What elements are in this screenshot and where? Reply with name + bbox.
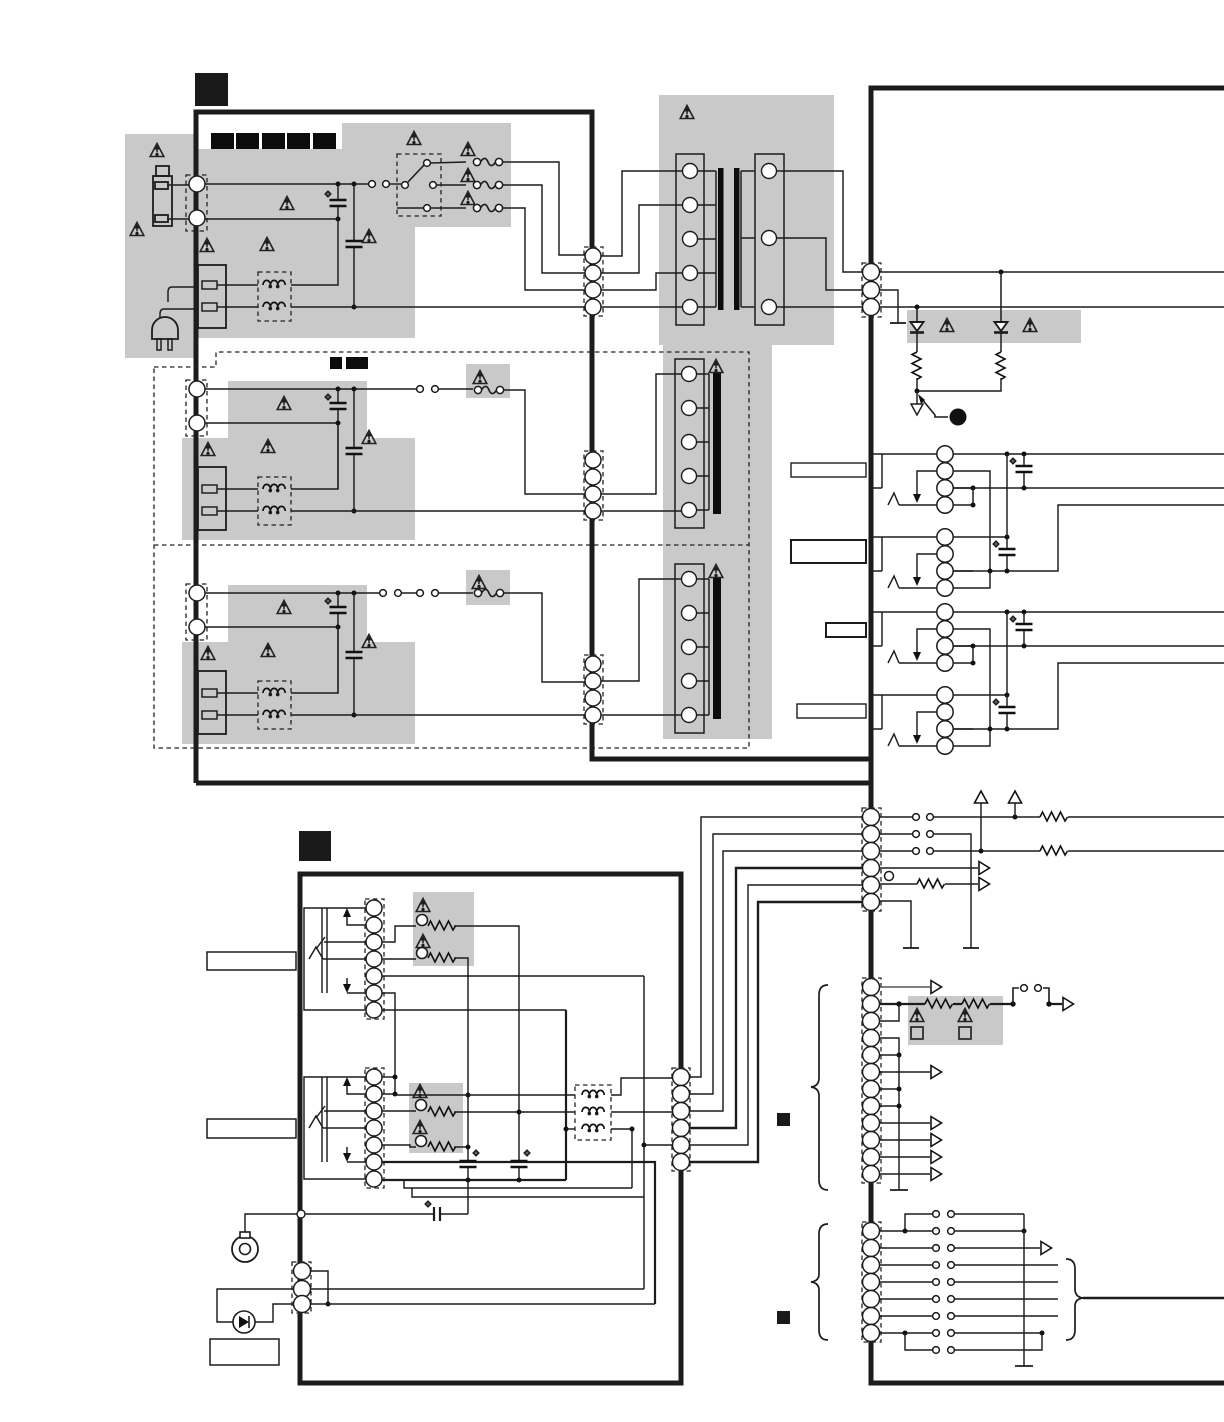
junction live cap2 s2 [352, 387, 357, 392]
wire cn12-12 to buffer [880, 1173, 930, 1175]
junction bottom C4 [352, 509, 357, 514]
junction b2l-2 [393, 1092, 398, 1097]
warning triangle fuse1 [461, 143, 475, 156]
terminal block section3 [198, 671, 226, 734]
wire rail B3 with elbow out [953, 505, 1224, 571]
junction rail top [999, 270, 1004, 275]
board pin sec2 [863, 282, 880, 299]
warning triangle lamp4 [413, 1121, 427, 1134]
dashed outline connector right mid [862, 808, 881, 911]
junction D1 [1005, 693, 1010, 698]
pin b2l-5 [366, 1137, 382, 1153]
contact open s2-a [417, 386, 424, 393]
jack body lines upper [322, 908, 327, 993]
junction live cap1 s2 [336, 387, 341, 392]
fuse F1-1 [473, 158, 502, 165]
T2 pin 5 [682, 503, 697, 518]
pin b2u-6 [366, 985, 382, 1001]
redacted label bar 3 [262, 133, 285, 149]
wire rail C3 [953, 645, 1224, 647]
resistor lamp3 [428, 1107, 456, 1116]
junction cnb1 right [1022, 1229, 1027, 1234]
junction live cap1 s3 [336, 591, 341, 596]
contact s7b [948, 1313, 955, 1320]
ground drop wire [1023, 1214, 1025, 1366]
long vertical feed [643, 976, 645, 1289]
junction cn12-5 [897, 1053, 902, 1058]
pin b2s-1 [294, 1263, 311, 1280]
warning triangle lamp2 [416, 935, 430, 948]
capacitor CA [1023, 454, 1025, 488]
junction A4 [971, 503, 976, 508]
pin b2l-2 [366, 1086, 382, 1102]
T3 pin 2 [682, 606, 697, 621]
junction C3b [1022, 644, 1027, 649]
dashed outline connector CN2 [186, 380, 207, 436]
wire b2l-5 to lamp4 [382, 1145, 416, 1147]
pin cn12-3 [863, 1013, 880, 1030]
wire rail C1 [953, 611, 1224, 613]
pin connector col1-3 [585, 282, 601, 298]
wire b2u-6 right [382, 993, 395, 1094]
dashed outline connector box2 lower [365, 1068, 384, 1188]
pin mid-2 [863, 826, 880, 843]
capacitor CF [511, 1161, 528, 1167]
wire lug2 to choke [217, 306, 258, 308]
pin open phono [297, 1210, 305, 1218]
resistor mid3 [1040, 846, 1068, 855]
brace output right [1066, 1259, 1083, 1340]
buffer cn12-12 [931, 1168, 942, 1181]
pin AC N section1 [189, 210, 205, 226]
wire center tap to ground [880, 290, 898, 323]
wire cn12-6 to buffer [880, 1071, 930, 1073]
junction bottom C2 [352, 305, 357, 310]
dashed outline connector col section1 [584, 247, 603, 316]
terminal lug s3-2 [202, 711, 217, 719]
contact open s2-b [432, 386, 439, 393]
shaded hazard area lamp resistors upper [413, 892, 474, 966]
pin mid-6 [863, 894, 880, 911]
wire col1-4 to T1 pin5 [601, 306, 682, 308]
pin b2r-2 [673, 1086, 690, 1103]
pin mid-1 [863, 809, 880, 826]
junction D3b [1005, 727, 1010, 732]
resistor lamp2 [428, 953, 456, 962]
warning triangle selector [407, 132, 421, 145]
dashed outline connector bottom 7pin [862, 1222, 881, 1342]
label box b2 lower [207, 1119, 296, 1138]
contact s9a [933, 1347, 940, 1354]
resistor mid5 [917, 879, 945, 888]
wire nested bottom b [412, 1188, 644, 1197]
pin AC L section2 [189, 381, 205, 397]
wire row s9 bottom [905, 1333, 1042, 1350]
pin b2l-7 [366, 1171, 382, 1187]
junction bottom C6 [352, 713, 357, 718]
wire mains bottom run [291, 306, 585, 308]
dashed outline line filter choke L2 [258, 477, 291, 525]
junction C3a [971, 644, 976, 649]
warning triangle RP2 [958, 1009, 972, 1022]
warning triangle block left [200, 239, 214, 252]
junction D3a [988, 727, 993, 732]
contact s1a [933, 1211, 940, 1218]
contact open a [369, 181, 376, 188]
wire cn12-9 to buffer [880, 1122, 930, 1124]
choke L3 winding top [263, 688, 285, 695]
shaded hazard area section 2 lower [182, 438, 415, 540]
wire row cnb6 [880, 1315, 1058, 1317]
buffer mid4 [979, 862, 990, 875]
warning triangle T2 [709, 360, 723, 373]
wire to LED indicator [217, 1289, 293, 1322]
dashed outline connector box2 left 3pin [292, 1262, 311, 1313]
junction cnb7 left [903, 1331, 908, 1336]
wire neutral section3 [205, 626, 338, 628]
wire feed to pin b2r-5 [644, 1144, 672, 1146]
wire T1 sec2 to board pin [777, 238, 862, 290]
selector common contact [402, 182, 409, 189]
polarity mark CF [524, 1150, 530, 1156]
T1 primary pin 1 [683, 164, 698, 179]
wire selector to fuse3 [431, 207, 466, 209]
wire rail B1 [953, 536, 1007, 538]
wire C3 to C4 link [953, 646, 973, 663]
speaker jack group B [872, 529, 973, 596]
wire rail D1 [953, 694, 1007, 696]
T1 secondary pin 3 [762, 300, 777, 315]
wire A2 to B4 [953, 471, 990, 588]
polarity mark CB [993, 541, 999, 547]
junction row1180 b [517, 1178, 522, 1183]
wire live section3 [205, 592, 473, 594]
AC plug prong left [157, 339, 161, 350]
ground mid6 [903, 947, 919, 949]
wire mid3 row [880, 850, 1224, 852]
dashed outline connector T1 secondary [862, 263, 881, 317]
junction cnb1 left [903, 1229, 908, 1234]
contact s6a [933, 1296, 940, 1303]
pin b2r-1 [673, 1069, 690, 1086]
terminal lug s3-1 [202, 689, 217, 697]
junction row1180 a [466, 1178, 471, 1183]
contact mid2 a [913, 831, 920, 838]
lamp NE2 [417, 948, 428, 959]
diode D1 [916, 307, 918, 352]
pin b2u-7 [366, 1002, 382, 1018]
wire row cnb7 [880, 1332, 1042, 1334]
pin col2-1 [585, 452, 601, 468]
wire row cnb2 to buffer [880, 1247, 1040, 1249]
wire mid2 row to ground [880, 834, 971, 948]
T1 secondary winding bar [741, 171, 755, 307]
resistor lamp4 [428, 1142, 456, 1151]
wire nested bottom a [404, 1180, 632, 1188]
T2 winding bar [697, 374, 709, 510]
T3 core [713, 577, 721, 719]
brace cn12 [811, 985, 828, 1190]
junction C4 [971, 661, 976, 666]
pin b2l-1 [366, 1069, 382, 1085]
speaker jack group A [872, 446, 973, 513]
T1 secondary pin 2 [762, 231, 777, 246]
T3 winding bar [697, 579, 709, 715]
dashed outline connector 12pin [862, 978, 881, 1183]
wire b2u-7 right [382, 1009, 566, 1011]
contact s5a [933, 1279, 940, 1286]
junction C1a [1005, 610, 1010, 615]
pin col2-4 [585, 503, 601, 519]
T2 pin 4 [682, 469, 697, 484]
transformer T2 frame [675, 359, 704, 528]
junction B3a [988, 569, 993, 574]
terminal lug s2-1 [202, 485, 217, 493]
wire plug cord 2 [160, 309, 198, 318]
series capacitor CG [434, 1207, 440, 1221]
junction A3b [1022, 486, 1027, 491]
T3 pin 3 [682, 640, 697, 655]
wire cn12-10 to buffer [880, 1139, 930, 1141]
capacitor C2 line to neutral [353, 184, 355, 307]
AC inlet connector body [153, 166, 172, 226]
redacted label bar 2 [236, 133, 259, 149]
choke L1 winding top [263, 280, 285, 287]
lamp NE3 [416, 1100, 427, 1111]
wire stair 1 to box2 pin1 [690, 817, 862, 1077]
bold output wire [1083, 1297, 1224, 1300]
junction cn12-8 [897, 1104, 902, 1109]
T2 pin 1 [682, 367, 697, 382]
buffer cn12-2 [1063, 998, 1074, 1011]
junction switch left [1010, 1001, 1015, 1006]
wire mid6 row to ground [880, 901, 911, 948]
wire b2u left rail [304, 908, 366, 1010]
junction cnb7 right [1040, 1331, 1045, 1336]
wire A1 to B1 link [1006, 454, 1008, 537]
ground cn12 [890, 1189, 908, 1191]
wire mains bottom run s2 [291, 510, 585, 512]
wire b2u-4 to lamp2 [382, 958, 416, 960]
contact open s3-a [380, 590, 387, 597]
junction bold choke row3 [564, 1127, 569, 1132]
junction b2l-1 [393, 1075, 398, 1080]
pin AC N section2 [189, 415, 205, 431]
wire b2s-2 long [311, 1288, 644, 1290]
warning triangle s2 left [201, 443, 215, 456]
dashed outline connector box2 right edge [672, 1068, 690, 1171]
fuse F3 [474, 589, 503, 596]
wire row cnb4 [880, 1281, 1058, 1283]
wire supply2 down [980, 803, 982, 851]
arrow up b2u-2 [347, 915, 366, 925]
junction mid1 [1013, 815, 1018, 820]
buffer cn12-9 [931, 1117, 942, 1130]
capacitor CB [1006, 537, 1008, 571]
dashed outline connector CN3 [186, 584, 207, 640]
bold vertical join [565, 1010, 567, 1180]
label square RP2 [959, 1027, 971, 1039]
wire cn12-2 signal bold [880, 1003, 1062, 1005]
amplifier block border (box 2) [300, 874, 681, 1383]
speaker jack group D [872, 687, 973, 754]
wire col1-3 to T1 pin4 [601, 273, 682, 290]
dashed outline connector col section3 [584, 655, 603, 724]
pin cn12-11 [863, 1149, 880, 1166]
shaded hazard area AC inlet strip [125, 134, 196, 358]
board pin sec1 [863, 264, 880, 281]
contact s4a [933, 1262, 940, 1269]
buffer cn12-11 [931, 1151, 942, 1164]
terminal block section2 [198, 467, 226, 530]
resistor R1 [912, 352, 921, 380]
shaded hazard area section 2 upper [228, 381, 367, 438]
warning triangle s3 left [201, 647, 215, 660]
tick b2l-3 [316, 1106, 366, 1118]
warning triangle s2 cap2 [362, 431, 376, 444]
dashed outline choke 3 winding [575, 1085, 611, 1140]
wire lug2 to choke s2 [217, 510, 258, 512]
label box jack B [791, 540, 866, 563]
wire neutral down to choke s2 [291, 423, 338, 489]
dashed outline voltage selector switch [397, 154, 441, 216]
arrow down open [911, 391, 923, 415]
contact s9b [948, 1347, 955, 1354]
caret b2u-4 [309, 947, 366, 959]
wire C1 to D1 link [1006, 612, 1008, 695]
wire col3-2 to T3 pin1 [601, 579, 682, 681]
warning triangle fuse2 [461, 169, 475, 182]
pin cn12-7 [863, 1081, 880, 1098]
pin col2-2 [585, 469, 601, 485]
junction choke row3 right [630, 1127, 635, 1132]
shaded hazard area transformer T1 [659, 95, 834, 345]
buffer cn12-6 [931, 1066, 942, 1079]
wire fuse3 to connector [503, 208, 585, 290]
warning triangle inlet top [150, 144, 164, 157]
contact s3a [933, 1245, 940, 1252]
polarity mark CE [473, 1150, 479, 1156]
pin mid-3 [863, 843, 880, 860]
pin cn12-6 [863, 1064, 880, 1081]
warning triangle fuse3 [461, 192, 475, 205]
wire b2l left rail [304, 1077, 366, 1179]
shaded hazard area transformer T2 T3 column [663, 345, 772, 739]
lamp NE4 [416, 1136, 427, 1147]
dashed divider between section 2 and 3 [154, 544, 749, 546]
pin cnb-1 [863, 1223, 880, 1240]
dashed outline connector col section2 [584, 451, 603, 520]
wire stair 5 to box2 pin5 [690, 885, 862, 1145]
wire lamp1 row right [454, 926, 519, 1161]
ground bottom [1015, 1365, 1033, 1367]
pin cn12-9 [863, 1115, 880, 1132]
polarity mark C5 [325, 598, 331, 604]
T3 pin 4 [682, 674, 697, 689]
wire secondary rail top [880, 271, 1224, 273]
T2 core [713, 372, 721, 514]
redacted label bar 4 [287, 133, 310, 149]
main board border (right box) [871, 88, 1224, 1383]
wire secondary rail bottom [880, 306, 1224, 308]
selector lever to lamp [921, 398, 948, 417]
wire selector to fuse1 [431, 162, 466, 163]
wire lamp2 row right [454, 958, 468, 1161]
wire neutral down to choke [291, 219, 338, 285]
warning triangle cap2 [362, 230, 376, 243]
wire cn12-1 to buffer [880, 986, 930, 988]
warning triangle D2 [1023, 319, 1037, 332]
T1 primary pin 4 [683, 266, 698, 281]
wire col3-4 to T3 pin5 [601, 714, 682, 716]
fuse F2 [474, 386, 503, 393]
pin col3-1 [585, 656, 601, 672]
junction mid3 [979, 849, 984, 854]
wire lug1 to choke [217, 284, 258, 286]
pin AC L section3 [189, 585, 205, 601]
wire inlet neutral to pin [168, 218, 189, 220]
T2 pin 3 [682, 435, 697, 450]
supply arrow B+ [1009, 791, 1022, 803]
junction live cap1 [336, 182, 341, 187]
warning triangle lamp3 [413, 1085, 427, 1098]
warning triangle D1 [940, 319, 954, 332]
contact s8b [948, 1330, 955, 1337]
section label black square box 2 [299, 831, 331, 861]
AC plug prong right [168, 339, 172, 350]
wire b2u-3 to lamp row [382, 926, 416, 942]
T1 primary pin 3 [683, 232, 698, 247]
wire lamp3 row right to choke [454, 1111, 575, 1113]
wire fuse2 to connector col2 [504, 390, 585, 494]
buffer cnb2 [1041, 1242, 1052, 1255]
contact s6b [948, 1296, 955, 1303]
warning triangle fuse F2 [473, 371, 487, 384]
polarity mark CD [993, 699, 999, 705]
wire b2s-3 long [311, 1303, 655, 1305]
wire neutral section1 [205, 218, 338, 220]
wire T1 sec3 to board pin [777, 306, 862, 308]
contact open b [383, 181, 390, 188]
contact mid1 b [927, 814, 934, 821]
wire col2-3 to T2 pin1 [601, 374, 682, 494]
wire cn12-3 [880, 1004, 899, 1021]
label box b2 upper [207, 952, 296, 970]
contact mid1 a [913, 814, 920, 821]
wire mains bottom run s3 [291, 714, 585, 716]
contact s2a [933, 1228, 940, 1235]
pin connector col1-1 [585, 248, 601, 264]
dashed outline connector CN1 [186, 175, 207, 231]
warning triangle s3 upper [277, 601, 291, 614]
resistor RP2 [962, 999, 990, 1008]
pin b2l-6 [366, 1154, 382, 1170]
wire col1-2 to T1 pin2 [601, 205, 682, 273]
junction B3b [1005, 569, 1010, 574]
lamp NE1 [417, 915, 428, 926]
legend square mid right [777, 1113, 790, 1126]
wire C2 to D4 [953, 629, 990, 746]
wire plug cord 1 [168, 287, 198, 302]
fuse F1-3 [473, 204, 502, 211]
contact s4b [948, 1262, 955, 1269]
warning triangle T3 [709, 565, 723, 578]
contact open s3-c [417, 590, 424, 597]
contact s5b [948, 1279, 955, 1286]
wire LED return [255, 1304, 293, 1322]
contact open s3-b [395, 590, 402, 597]
shaded hazard area fuse F2 [466, 364, 510, 398]
